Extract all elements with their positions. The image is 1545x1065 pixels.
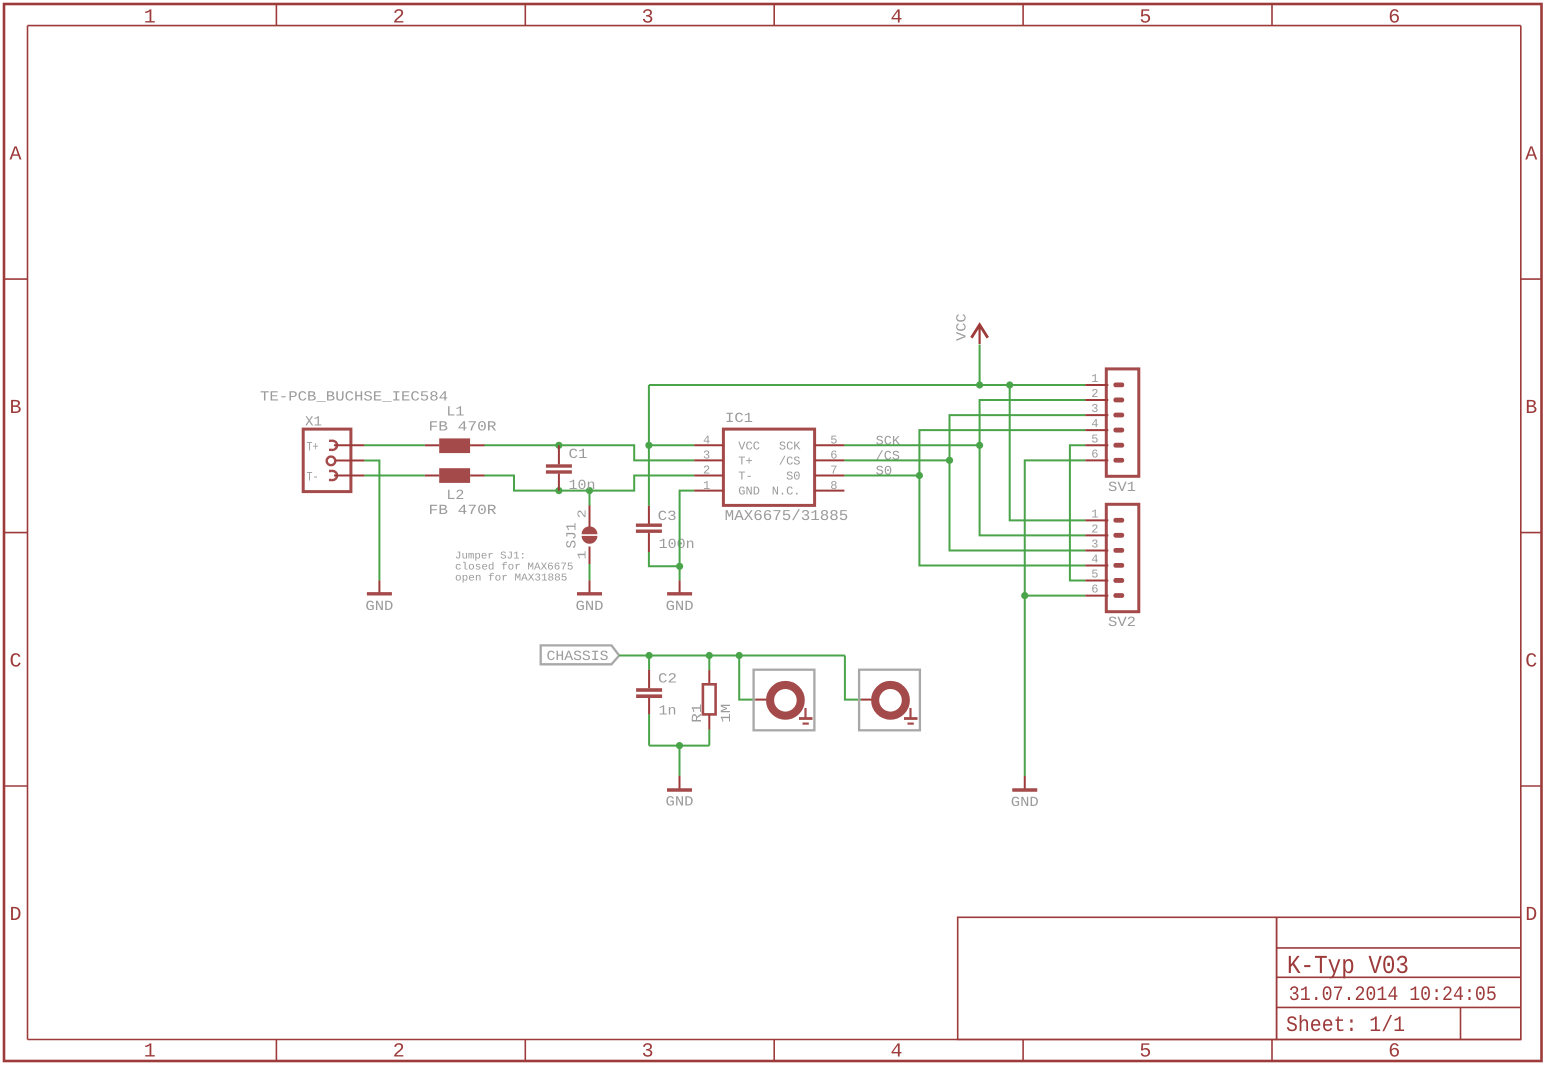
ground GND at X1 (365, 580, 393, 614)
wire VCC arrow stem (979, 345, 981, 386)
svg-text:GND: GND (666, 794, 694, 810)
svg-text:SV2: SV2 (1108, 615, 1136, 631)
svg-text:IC1: IC1 (725, 411, 753, 427)
svg-text:5: 5 (1091, 568, 1098, 582)
SV1 pin numbers (1091, 372, 1098, 461)
svg-text:GND: GND (666, 599, 694, 615)
svg-text:100n: 100n (659, 537, 695, 553)
ground GND below SV2 (1011, 776, 1039, 811)
wire T+ net: X1 to L1 (364, 444, 424, 446)
wire T- net: X1 to L2 (364, 475, 424, 477)
svg-text:open for MAX31885: open for MAX31885 (455, 573, 567, 585)
connector SV1 body (1106, 369, 1139, 476)
svg-text:VCC: VCC (738, 439, 760, 453)
wire junction down to GND symbol (679, 566, 681, 580)
junction T- / C1 bottom (555, 487, 562, 494)
svg-text:2: 2 (393, 6, 405, 29)
wire /CS vertical SV1.3 to SV2.3 (950, 415, 1086, 550)
wire C2/R1 bottom (649, 745, 709, 747)
svg-text:N.C.: N.C. (772, 485, 801, 499)
hole1 lead (755, 699, 767, 701)
SV1 pads (1113, 383, 1124, 463)
L1 pin leads (425, 444, 485, 446)
wire SV1.5 to SV2.5 (1070, 445, 1085, 580)
svg-text:2: 2 (1091, 522, 1098, 536)
svg-text:VCC: VCC (955, 313, 971, 341)
ground GND below C2/R1 (666, 776, 694, 811)
svg-text:GND: GND (365, 599, 393, 615)
junction GND at SV2.6 (1021, 592, 1028, 599)
svg-text:K-Typ V03: K-Typ V03 (1287, 951, 1409, 981)
wire junction to GND (679, 746, 681, 776)
ferrite bead L1 body (439, 438, 470, 453)
wire CHASSIS to hole2 (845, 656, 861, 700)
junction VCC to SV2 branch (1006, 381, 1013, 388)
svg-text:SJ1: SJ1 (565, 523, 581, 549)
svg-text:T-: T- (307, 469, 319, 484)
wire VCC net vertical to C3 (648, 385, 650, 506)
svg-text:B: B (9, 397, 21, 420)
svg-text:TE-PCB_BUCHSE_IEC584: TE-PCB_BUCHSE_IEC584 (260, 390, 448, 406)
svg-text:4: 4 (1091, 553, 1098, 567)
svg-text:6: 6 (1091, 583, 1098, 597)
mounting hole H1 pad ring (770, 685, 801, 716)
svg-text:2: 2 (703, 464, 710, 478)
svg-text:S0: S0 (786, 470, 800, 484)
IC1 body MAX6675 (723, 429, 814, 505)
svg-text:5: 5 (1139, 1040, 1151, 1063)
wire GND net SV1.6 down (1025, 460, 1086, 776)
junction bottom GND wire (676, 742, 683, 749)
svg-text:D: D (1525, 904, 1537, 927)
wire CHASSIS to hole1 (739, 656, 755, 700)
resistor R1 symbol (703, 656, 716, 746)
IC1 right pin leads 5,6,7,8 (815, 445, 845, 490)
svg-text:/CS: /CS (779, 454, 801, 468)
svg-text:1M: 1M (719, 704, 735, 723)
svg-text:A: A (9, 144, 21, 167)
IC1 pin names right column (772, 439, 802, 498)
svg-text:GND: GND (576, 599, 604, 615)
L2 pin leads (425, 475, 485, 477)
svg-text:T+: T+ (738, 454, 752, 468)
frame column numbers 1-6 bottom (144, 1040, 1401, 1063)
svg-text:3: 3 (1091, 537, 1098, 551)
svg-text:5: 5 (830, 434, 837, 448)
net flag CHASSIS (541, 645, 620, 664)
svg-text:1: 1 (1091, 372, 1098, 386)
svg-text:FB 470R: FB 470R (429, 503, 498, 519)
junction CHASSIS / R1 (706, 652, 713, 659)
junction T+ / C1 top (555, 442, 562, 449)
capacitor C2 symbol (636, 656, 662, 746)
wire CHASSIS net horizontal (619, 655, 845, 657)
svg-text:1: 1 (144, 6, 156, 29)
wire /CS: IC1 pin6 to vertical (844, 459, 949, 461)
wire SCK vertical SV1.2 to SV2.2 (980, 400, 1086, 535)
junction CHASSIS / C2 (646, 652, 653, 659)
wire IC1 pin1 to GND junction (680, 491, 695, 567)
capacitor C3 symbol (636, 506, 662, 552)
junction VCC / IC1 pin4 (645, 442, 652, 449)
svg-text:5: 5 (1091, 432, 1098, 446)
svg-text:B: B (1525, 397, 1537, 420)
svg-text:1: 1 (144, 1040, 156, 1063)
svg-text:4: 4 (890, 6, 902, 29)
IC1 pin numbers left (703, 434, 710, 493)
svg-text:MAX6675/31885: MAX6675/31885 (725, 508, 849, 525)
IC1 pin numbers right (830, 434, 837, 493)
svg-text:6: 6 (1388, 6, 1400, 29)
IC1 left pin leads 4,3,2,1 (694, 445, 723, 490)
junction SCK (976, 442, 983, 449)
SV2 pin leads (1085, 520, 1108, 595)
svg-text:2: 2 (1091, 387, 1098, 401)
SV2 pads (1113, 518, 1124, 598)
capacitor C1 symbol (546, 445, 572, 490)
svg-text:5: 5 (1139, 6, 1151, 29)
junction CHASSIS / hole1 (736, 652, 743, 659)
SV2 pin numbers (1091, 507, 1098, 596)
svg-text:C: C (9, 651, 21, 674)
svg-text:31.07.2014 10:24:05: 31.07.2014 10:24:05 (1289, 984, 1497, 1007)
svg-text:L1: L1 (446, 405, 464, 421)
wire S0: IC1 pin7 to vertical (844, 475, 919, 477)
svg-text:4: 4 (1091, 417, 1098, 431)
ground GND at SJ1 (576, 580, 604, 614)
svg-text:3: 3 (642, 6, 654, 29)
hole1 chassis ground mark (799, 708, 813, 724)
svg-text:T+: T+ (307, 439, 319, 454)
mounting hole H2 pad ring (875, 685, 906, 716)
svg-text:2: 2 (576, 509, 590, 518)
hole2 lead (861, 699, 872, 701)
ferrite bead L2 body (439, 468, 470, 483)
X1 pin T- contact (329, 471, 337, 480)
svg-text:GND: GND (1011, 795, 1039, 811)
svg-text:Sheet: 1/1: Sheet: 1/1 (1286, 1013, 1405, 1038)
svg-text:C2: C2 (658, 672, 677, 688)
frame row letters A-D right (1525, 144, 1537, 927)
junction T- / SJ1 (586, 487, 593, 494)
wire X1 shield to GND (364, 461, 379, 581)
svg-text:FB 470R: FB 470R (429, 420, 498, 436)
svg-text:C: C (1525, 651, 1537, 674)
wire C3 bottom to GND junction (649, 552, 680, 566)
wire VCC to IC1 pin4 (649, 444, 694, 446)
svg-text:1: 1 (703, 479, 710, 493)
svg-text:D: D (9, 904, 21, 927)
mounting hole H1 square (754, 670, 815, 731)
svg-text:6: 6 (1091, 447, 1098, 461)
ground GND at C3 (666, 580, 694, 614)
supply VCC arrow (971, 325, 987, 344)
frame column numbers 1-6 top (144, 6, 1401, 29)
wire VCC horizontal to SV1 pin1 (649, 384, 1085, 386)
wire T- net: L2 to IC1 pin2 (485, 476, 695, 491)
wire GND to SV2 pin6 (1025, 595, 1086, 597)
svg-text:L2: L2 (446, 488, 464, 504)
svg-text:2: 2 (393, 1040, 405, 1063)
svg-text:1n: 1n (659, 704, 677, 720)
svg-text:8: 8 (830, 479, 837, 493)
wire T+ net: L1 to IC1 pin3 (485, 445, 695, 460)
wire S0 vertical SV1.4 to SV2.4 (919, 430, 1085, 565)
SV1 pin leads (1085, 385, 1108, 460)
X1 pin T+ contact (329, 441, 337, 450)
svg-text:closed for MAX6675: closed for MAX6675 (455, 562, 574, 574)
hole2 chassis ground mark (904, 708, 918, 724)
svg-text:1: 1 (576, 551, 590, 560)
mounting hole H2 square (859, 670, 920, 731)
title block outline (958, 917, 1521, 1039)
svg-text:3: 3 (703, 449, 710, 463)
svg-text:T-: T- (738, 470, 752, 484)
frame row letters A-D left (9, 144, 21, 927)
svg-text:6: 6 (830, 449, 837, 463)
junction /CS (946, 457, 953, 464)
X1 shield pin circle (327, 457, 336, 466)
connector X1 body (303, 429, 351, 492)
svg-text:6: 6 (1388, 1040, 1400, 1063)
svg-text:C1: C1 (569, 447, 588, 463)
svg-text:7: 7 (830, 464, 837, 478)
svg-text:SV1: SV1 (1108, 480, 1136, 496)
note text Jumper SJ1 (455, 551, 574, 585)
svg-text:A: A (1525, 144, 1537, 167)
wire SCK: IC1 pin5 to vertical (844, 444, 979, 446)
svg-text:3: 3 (642, 1040, 654, 1063)
svg-text:1: 1 (1091, 507, 1098, 521)
svg-text:C3: C3 (658, 509, 677, 525)
svg-text:SCK: SCK (779, 439, 801, 453)
svg-text:GND: GND (738, 485, 760, 499)
IC1 pin names left column (738, 439, 760, 498)
wire VCC to SV2 pin1 (1010, 385, 1086, 520)
svg-text:10n: 10n (569, 478, 596, 494)
X1 pin leads (334, 445, 364, 475)
jumper SJ1 symbol (582, 491, 598, 581)
junction S0 (916, 472, 923, 479)
svg-text:4: 4 (703, 434, 710, 448)
connector SV2 body (1106, 504, 1139, 611)
svg-text:3: 3 (1091, 402, 1098, 416)
junction GND net below C3 (676, 563, 683, 570)
svg-text:CHASSIS: CHASSIS (547, 649, 609, 665)
svg-text:4: 4 (890, 1040, 902, 1063)
junction VCC arrow (976, 381, 983, 388)
